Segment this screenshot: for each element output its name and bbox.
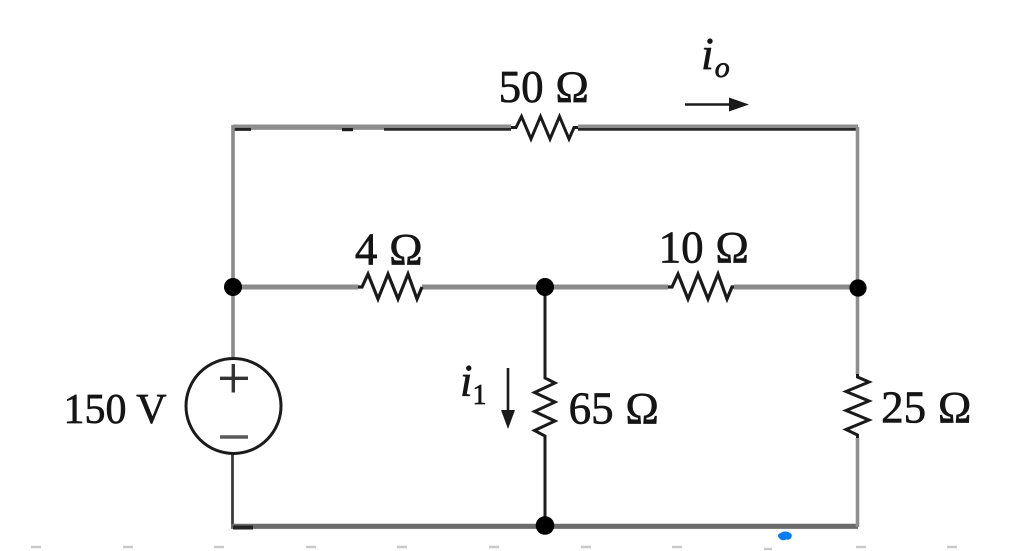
node dot left [224, 278, 242, 296]
node dot bottom [536, 516, 555, 535]
svg-text:i1: i1 [460, 356, 487, 411]
wire middle vertical (65 ohm branch) [544, 287, 547, 527]
faint cropped text row at bottom [31, 547, 957, 549]
resistor 65 ohm (vertical) [535, 375, 556, 438]
wire right vertical [856, 127, 860, 527]
label 4 ohm [355, 225, 423, 275]
svg-text:50 Ω: 50 Ω [499, 62, 590, 112]
current arrow io [685, 98, 749, 112]
label 25 ohm [881, 383, 972, 433]
plus sign [220, 364, 248, 393]
svg-text:65 Ω: 65 Ω [569, 384, 660, 434]
blue annotation blob [778, 531, 792, 540]
label 50 ohm [499, 62, 590, 112]
resistor 4 ohm [358, 274, 422, 299]
node dot right [849, 279, 866, 296]
wire from source bottom to bottom rail [231, 454, 234, 527]
svg-text:4 Ω: 4 Ω [355, 225, 423, 275]
label i1 [460, 356, 487, 411]
wire middle horizontal [233, 285, 858, 290]
svg-text:150 V: 150 V [63, 387, 166, 433]
svg-text:10 Ω: 10 Ω [659, 223, 750, 273]
wire top horizontal [233, 127, 858, 129]
label 150 V [63, 387, 166, 433]
svg-text:25 Ω: 25 Ω [881, 383, 972, 433]
label 10 ohm [659, 223, 750, 273]
wire bottom horizontal [231, 526, 858, 527]
resistor 25 ohm (vertical) [846, 374, 869, 438]
current arrow i1 [501, 368, 515, 429]
resistor 50 ohm (top) [511, 117, 578, 140]
label io [701, 28, 730, 84]
wire left vertical [231, 125, 235, 357]
voltage source 150 V circle [186, 359, 281, 454]
svg-text:io: io [701, 28, 730, 84]
minus sign [220, 435, 248, 439]
label 65 ohm [569, 384, 660, 434]
resistor 10 ohm [668, 274, 734, 299]
node dot center [536, 278, 554, 296]
